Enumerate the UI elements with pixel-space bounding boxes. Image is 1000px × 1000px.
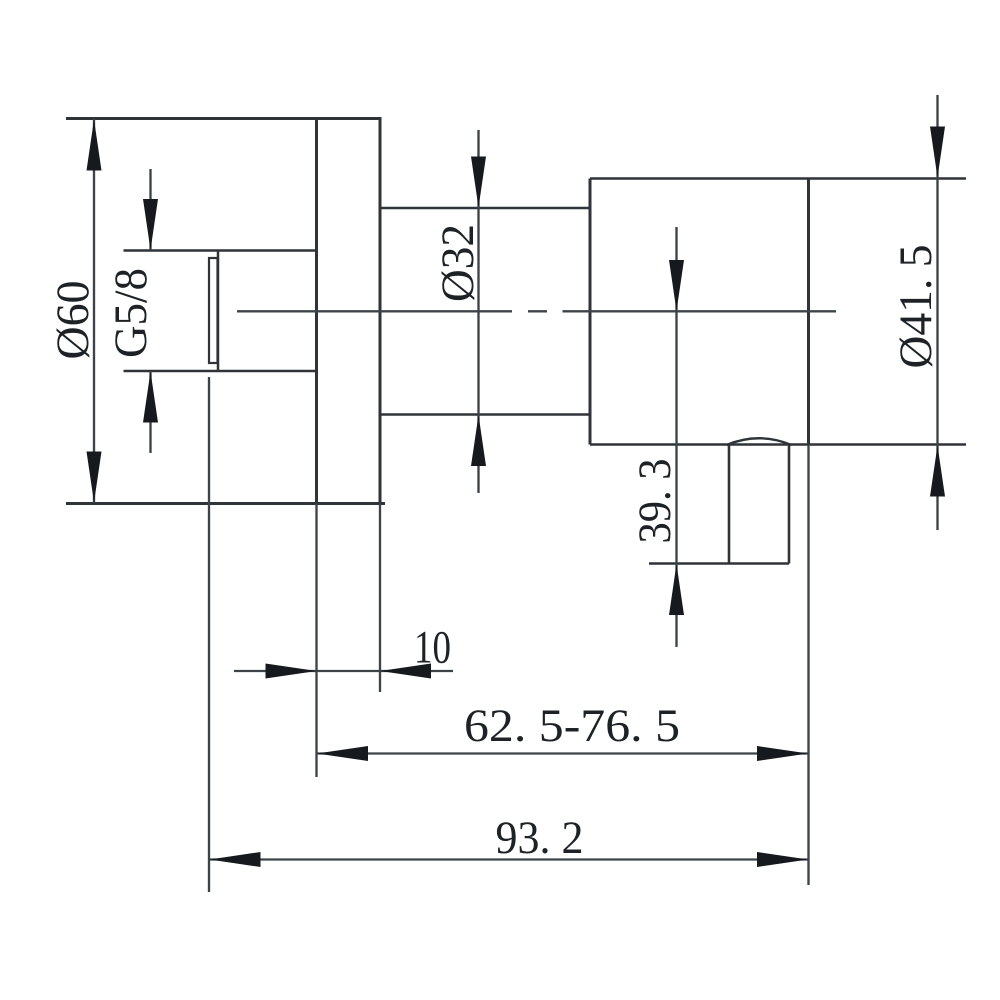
nipple left end face xyxy=(217,251,220,372)
svg-text:Ø41. 5: Ø41. 5 xyxy=(890,245,942,369)
dim line G5/8 lower xyxy=(149,371,151,453)
arrow D32 up xyxy=(471,415,486,466)
flange bottom edge + extension xyxy=(66,502,385,505)
arrow 93.2 right xyxy=(757,852,808,867)
svg-text:39. 3: 39. 3 xyxy=(629,459,681,544)
body right edge xyxy=(807,179,810,445)
body left edge xyxy=(589,179,592,445)
arrow 76.5 right xyxy=(757,746,808,761)
arrow 10 left xyxy=(380,664,431,679)
arrow G5/8 up xyxy=(143,372,158,423)
arrow 62.5 left xyxy=(317,746,368,761)
body bottom edge + extension xyxy=(590,443,966,446)
flange right edge xyxy=(379,117,382,504)
dim line D60 xyxy=(93,119,95,503)
port bottom edge + 39.3 extension xyxy=(649,562,789,564)
extension line flange right xyxy=(379,504,381,693)
dim line D32 xyxy=(477,130,479,493)
svg-text:93. 2: 93. 2 xyxy=(496,812,584,864)
pipe bottom edge xyxy=(380,413,590,416)
arrow 93.2 left xyxy=(210,852,261,867)
svg-text:G5/8: G5/8 xyxy=(105,268,157,358)
extension line body right xyxy=(807,445,809,886)
dim line 10 xyxy=(234,670,453,672)
centerline xyxy=(237,310,512,312)
extension line flange left xyxy=(315,504,317,778)
svg-text:Ø60: Ø60 xyxy=(47,281,99,360)
svg-text:10: 10 xyxy=(414,622,451,674)
arrow G5/8 down xyxy=(143,199,158,250)
port right edge xyxy=(788,445,791,564)
port shoulder arc xyxy=(727,438,792,445)
nipple end cap rectangle xyxy=(209,258,218,363)
svg-text:62. 5-76. 5: 62. 5-76. 5 xyxy=(464,700,680,752)
arrow 10 right xyxy=(266,664,317,679)
flange left edge xyxy=(315,117,318,504)
dim line D41.5 xyxy=(936,95,938,530)
port left edge xyxy=(728,445,731,564)
flange wall plate top edge + extension xyxy=(66,117,382,120)
nipple bottom edge + G5/8 extension xyxy=(124,370,317,373)
arrow 39.3 up xyxy=(669,564,684,615)
nipple top edge + G5/8 extension xyxy=(124,249,317,252)
dim line 93.2 xyxy=(209,858,809,860)
dim line G5/8 upper xyxy=(149,169,151,251)
arrow 39.3 down xyxy=(669,260,684,311)
svg-text:Ø32: Ø32 xyxy=(432,224,484,302)
pipe top edge xyxy=(380,207,590,210)
arrow D41.5 up xyxy=(930,446,945,497)
body top edge + extension xyxy=(590,177,966,180)
extension line nipple end face xyxy=(208,377,210,892)
arrow D60 down xyxy=(87,452,102,503)
dim line 62.5-76.5 xyxy=(317,752,809,754)
arrow D60 up xyxy=(87,120,102,171)
arrow D41.5 down xyxy=(930,127,945,178)
arrow D32 down xyxy=(471,157,486,208)
dim line 39.3 xyxy=(675,227,677,647)
